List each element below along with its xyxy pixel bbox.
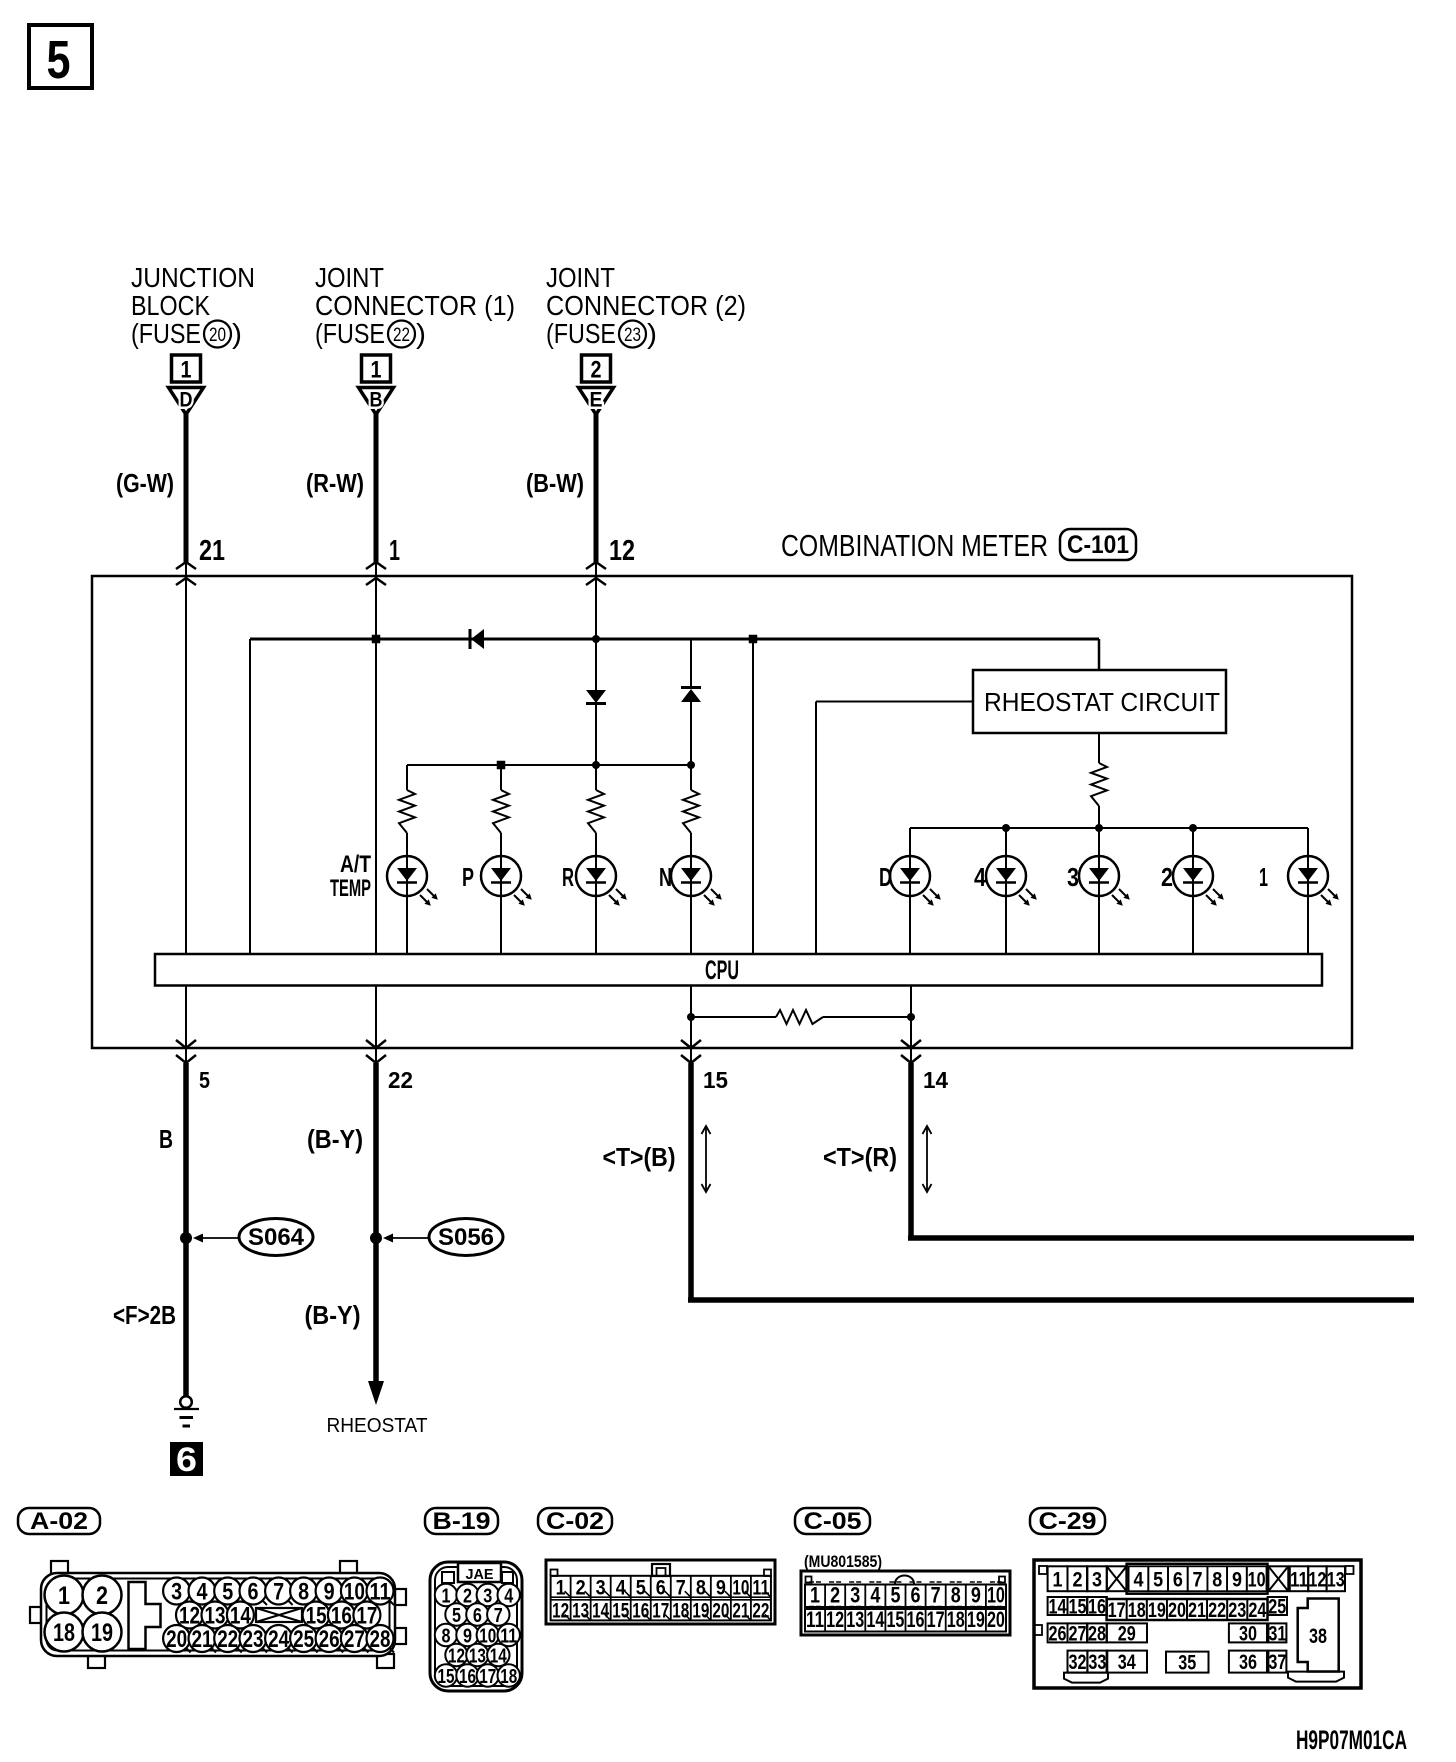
svg-text:22: 22	[388, 1067, 413, 1093]
svg-text:19: 19	[91, 1619, 113, 1647]
svg-text:3: 3	[483, 1586, 492, 1608]
svg-text:10: 10	[987, 1583, 1005, 1608]
svg-text:6: 6	[911, 1583, 921, 1608]
svg-text:16: 16	[632, 1600, 649, 1623]
svg-text:25: 25	[293, 1626, 314, 1653]
svg-text:5: 5	[1153, 1568, 1163, 1591]
svg-text:36: 36	[1239, 1651, 1257, 1674]
svg-text:15: 15	[438, 1666, 455, 1688]
svg-text:6: 6	[176, 1441, 197, 1479]
svg-text:4: 4	[504, 1586, 514, 1608]
svg-text:C-101: C-101	[1067, 531, 1129, 559]
svg-text:11: 11	[752, 1577, 769, 1600]
svg-text:23: 23	[243, 1626, 264, 1653]
svg-text:11: 11	[806, 1607, 824, 1632]
svg-text:15: 15	[1068, 1596, 1086, 1619]
svg-text:A/T: A/T	[340, 851, 371, 878]
svg-text:(FUSE: (FUSE	[546, 318, 616, 349]
svg-text:2: 2	[1161, 862, 1173, 892]
svg-text:1: 1	[1259, 862, 1268, 892]
svg-text:RHEOSTAT CIRCUIT: RHEOSTAT CIRCUIT	[984, 687, 1220, 717]
svg-text:3: 3	[171, 1579, 182, 1606]
svg-text:17: 17	[479, 1666, 496, 1688]
svg-text:27: 27	[344, 1626, 365, 1653]
svg-text:1: 1	[442, 1586, 451, 1608]
svg-text:(B-Y): (B-Y)	[307, 1124, 363, 1154]
svg-text:4: 4	[870, 1583, 881, 1608]
svg-text:22: 22	[393, 325, 410, 346]
svg-text:12: 12	[609, 535, 635, 567]
svg-text:8: 8	[298, 1579, 309, 1606]
svg-text:26: 26	[319, 1626, 340, 1653]
svg-text:1: 1	[58, 1582, 70, 1610]
svg-text:20: 20	[712, 1600, 729, 1623]
svg-text:RHEOSTAT: RHEOSTAT	[327, 1415, 428, 1437]
svg-text:4: 4	[974, 862, 986, 892]
svg-text:1: 1	[181, 357, 192, 384]
svg-text:19: 19	[967, 1607, 985, 1632]
svg-text:P: P	[462, 862, 474, 892]
svg-text:8: 8	[1212, 1568, 1222, 1591]
svg-text:16: 16	[907, 1607, 925, 1632]
svg-text:21: 21	[199, 535, 225, 567]
svg-text:<T>(B): <T>(B)	[603, 1142, 676, 1172]
svg-text:6: 6	[1173, 1568, 1183, 1591]
svg-text:12: 12	[826, 1607, 844, 1632]
svg-text:C-29: C-29	[1039, 1508, 1097, 1535]
svg-text:(R-W): (R-W)	[306, 468, 364, 498]
svg-text:(B-W): (B-W)	[526, 468, 584, 498]
svg-text:5: 5	[890, 1583, 900, 1608]
svg-text:23: 23	[624, 325, 641, 346]
svg-text:17: 17	[652, 1600, 669, 1623]
svg-text:9: 9	[716, 1577, 726, 1600]
svg-text:E: E	[590, 389, 603, 412]
svg-text:15: 15	[703, 1067, 728, 1093]
svg-text:4: 4	[616, 1577, 626, 1600]
svg-text:18: 18	[53, 1619, 75, 1647]
svg-text:20: 20	[987, 1607, 1005, 1632]
svg-text:2: 2	[576, 1577, 586, 1600]
svg-text:): )	[232, 318, 242, 349]
svg-text:R: R	[562, 862, 574, 892]
svg-text:24: 24	[268, 1626, 290, 1653]
svg-text:B: B	[370, 389, 383, 412]
svg-text:37: 37	[1268, 1651, 1286, 1674]
svg-text:N: N	[659, 862, 672, 892]
svg-text:C-05: C-05	[804, 1508, 862, 1535]
svg-text:JAE: JAE	[466, 1566, 494, 1583]
svg-text:23: 23	[1228, 1599, 1246, 1622]
svg-text:32: 32	[1068, 1651, 1086, 1674]
svg-text:19: 19	[692, 1600, 709, 1623]
svg-text:11: 11	[370, 1579, 391, 1606]
svg-text:13: 13	[1327, 1568, 1345, 1591]
svg-text:29: 29	[1118, 1622, 1136, 1645]
svg-text:28: 28	[370, 1626, 391, 1653]
svg-text:14: 14	[592, 1600, 609, 1623]
svg-text:9: 9	[324, 1579, 335, 1606]
svg-text:18: 18	[1128, 1599, 1146, 1622]
svg-text:16: 16	[1088, 1596, 1106, 1619]
svg-text:4: 4	[197, 1579, 209, 1606]
svg-text:8: 8	[696, 1577, 706, 1600]
svg-text:<T>(R): <T>(R)	[823, 1142, 897, 1172]
svg-text:1: 1	[389, 535, 400, 567]
svg-text:12: 12	[1308, 1568, 1326, 1591]
svg-text:BLOCK: BLOCK	[131, 290, 210, 321]
svg-text:B-19: B-19	[433, 1508, 491, 1535]
svg-text:3: 3	[1092, 1568, 1102, 1591]
svg-text:7: 7	[676, 1577, 686, 1600]
svg-text:10: 10	[732, 1577, 749, 1600]
svg-text:19: 19	[1148, 1599, 1166, 1622]
svg-text:CPU: CPU	[705, 955, 739, 985]
svg-text:1: 1	[810, 1583, 820, 1608]
svg-text:16: 16	[459, 1666, 476, 1688]
svg-text:D: D	[180, 389, 193, 412]
svg-text:B: B	[159, 1124, 173, 1154]
svg-text:12: 12	[552, 1600, 569, 1623]
svg-text:24: 24	[1248, 1599, 1266, 1622]
svg-text:10: 10	[1248, 1568, 1266, 1591]
svg-text:5: 5	[636, 1577, 646, 1600]
svg-text:5: 5	[47, 30, 71, 90]
svg-text:8: 8	[951, 1583, 961, 1608]
svg-text:7: 7	[931, 1583, 941, 1608]
svg-text:18: 18	[672, 1600, 689, 1623]
svg-text:17: 17	[1108, 1599, 1126, 1622]
svg-text:7: 7	[273, 1579, 284, 1606]
svg-text:20: 20	[166, 1626, 187, 1653]
svg-text:9: 9	[971, 1583, 981, 1608]
svg-text:1: 1	[1053, 1568, 1063, 1591]
svg-text:34: 34	[1118, 1651, 1136, 1674]
svg-text:1: 1	[556, 1577, 566, 1600]
svg-text:2: 2	[1072, 1568, 1082, 1591]
svg-text:14: 14	[1049, 1596, 1067, 1619]
svg-text:20: 20	[1168, 1599, 1186, 1622]
svg-text:A-02: A-02	[30, 1508, 88, 1535]
svg-text:2: 2	[830, 1583, 840, 1608]
svg-text:21: 21	[192, 1626, 213, 1653]
svg-text:5: 5	[199, 1067, 210, 1093]
svg-text:(MU801585): (MU801585)	[804, 1552, 882, 1571]
svg-text:27: 27	[1068, 1622, 1086, 1645]
svg-text:11: 11	[1290, 1568, 1308, 1591]
svg-text:4: 4	[1133, 1568, 1143, 1591]
svg-text:5: 5	[452, 1605, 461, 1627]
svg-text:3: 3	[1067, 862, 1079, 892]
svg-text:15: 15	[612, 1600, 629, 1623]
svg-text:(B-Y): (B-Y)	[305, 1300, 361, 1330]
svg-text:6: 6	[473, 1605, 482, 1627]
svg-text:S064: S064	[248, 1224, 305, 1251]
svg-text:JUNCTION: JUNCTION	[131, 262, 255, 293]
svg-text:): )	[647, 318, 657, 349]
svg-text:26: 26	[1049, 1622, 1067, 1645]
svg-text:C-02: C-02	[546, 1508, 604, 1535]
svg-text:22: 22	[217, 1626, 238, 1653]
svg-text:CONNECTOR (2): CONNECTOR (2)	[546, 290, 746, 321]
svg-text:1: 1	[371, 357, 382, 384]
svg-text:30: 30	[1239, 1622, 1257, 1645]
svg-text:3: 3	[596, 1577, 606, 1600]
svg-text:(FUSE: (FUSE	[315, 318, 385, 349]
svg-text:18: 18	[947, 1607, 965, 1632]
svg-text:21: 21	[1188, 1599, 1206, 1622]
svg-text:(G-W): (G-W)	[116, 468, 174, 498]
svg-text:2: 2	[96, 1582, 108, 1610]
svg-text:3: 3	[850, 1583, 860, 1608]
svg-text:D: D	[879, 862, 892, 892]
svg-text:25: 25	[1268, 1596, 1286, 1619]
svg-text:22: 22	[752, 1600, 769, 1623]
svg-text:H9P07M01CA: H9P07M01CA	[1296, 1725, 1407, 1755]
svg-text:2: 2	[463, 1586, 472, 1608]
svg-text:6: 6	[656, 1577, 666, 1600]
svg-text:28: 28	[1088, 1622, 1106, 1645]
svg-text:COMBINATION METER: COMBINATION METER	[781, 528, 1048, 563]
svg-text:7: 7	[1193, 1568, 1203, 1591]
svg-text:14: 14	[923, 1067, 948, 1093]
svg-text:TEMP: TEMP	[330, 875, 371, 902]
svg-text:2: 2	[591, 357, 602, 384]
svg-text:(FUSE: (FUSE	[131, 318, 201, 349]
svg-text:31: 31	[1268, 1622, 1286, 1645]
svg-text:18: 18	[500, 1666, 517, 1688]
svg-text:38: 38	[1309, 1625, 1327, 1648]
svg-text:S056: S056	[438, 1224, 494, 1251]
svg-text:JOINT: JOINT	[315, 262, 384, 293]
svg-text:35: 35	[1178, 1652, 1196, 1675]
svg-text:9: 9	[1232, 1568, 1242, 1591]
svg-text:17: 17	[927, 1607, 945, 1632]
svg-text:9: 9	[463, 1626, 472, 1648]
svg-text:6: 6	[248, 1579, 259, 1606]
svg-text:33: 33	[1088, 1651, 1106, 1674]
svg-text:): )	[416, 318, 426, 349]
svg-text:8: 8	[442, 1626, 451, 1648]
svg-text:7: 7	[494, 1605, 503, 1627]
svg-text:22: 22	[1208, 1599, 1226, 1622]
svg-text:13: 13	[846, 1607, 864, 1632]
svg-text:14: 14	[866, 1607, 885, 1632]
svg-text:20: 20	[209, 325, 226, 346]
svg-text:JOINT: JOINT	[546, 262, 615, 293]
svg-text:5: 5	[222, 1579, 233, 1606]
svg-text:15: 15	[886, 1607, 904, 1632]
svg-text:13: 13	[572, 1600, 589, 1623]
svg-text:<F>2B: <F>2B	[113, 1300, 176, 1330]
svg-text:21: 21	[732, 1600, 749, 1623]
svg-text:CONNECTOR (1): CONNECTOR (1)	[315, 290, 515, 321]
